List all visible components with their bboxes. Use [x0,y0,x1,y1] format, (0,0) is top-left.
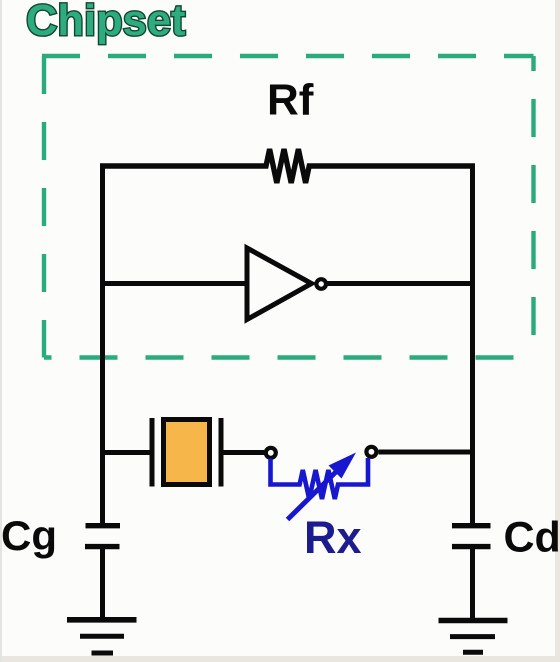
node left terminal [266,448,276,458]
capacitor Cd top plate [452,523,491,528]
ground right [439,621,508,653]
bottom edge strip [0,656,560,662]
wire crystal to node [224,450,265,455]
svg-text:Rx: Rx [304,512,362,563]
chipset dashed box [42,56,534,358]
inverter bubble [316,279,326,289]
node right terminal [366,447,376,457]
svg-text:Chipset: Chipset [26,0,186,45]
capacitor Cg bottom plate [85,544,120,549]
Rx arrow head [329,453,357,479]
wire Cd to ground [470,549,475,618]
wire Cg to ground [100,549,105,618]
svg-text:Cd: Cd [504,514,560,562]
variable resistor Rx blue path [271,458,369,499]
resistor Rf [100,149,475,183]
wire inverter output [328,281,471,286]
crystal X1 left plate [150,418,155,487]
crystal X1 right plate [219,418,224,487]
wire node to right vertical [379,450,476,455]
right edge strip [555,0,560,662]
wire crystal left [100,450,150,455]
capacitor Cd bottom plate [452,544,491,549]
wire right vertical [470,164,475,524]
wire inverter input [100,281,247,286]
Rx arrow shaft [288,463,346,520]
capacitor Cg top plate [86,523,121,528]
op-amp U1 inverter triangle [247,248,312,320]
svg-text:Rf: Rf [267,76,314,125]
left edge line [0,0,2,662]
wire left vertical [100,164,105,524]
svg-text:Cg: Cg [1,512,57,559]
crystal X1 body [164,420,210,485]
ground left [67,620,137,653]
